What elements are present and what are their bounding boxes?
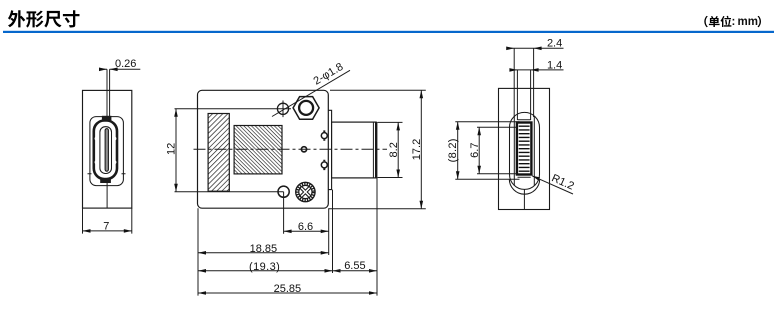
hex nut <box>293 97 319 120</box>
svg-text:(8.2): (8.2) <box>447 138 459 162</box>
shell inner wall <box>100 127 112 174</box>
svg-text:7: 7 <box>103 221 109 233</box>
rear view body <box>499 88 550 209</box>
hole centerline bottom (12 ext) <box>175 191 284 193</box>
capsule inner walls <box>514 117 534 186</box>
horizontal centerline <box>194 148 388 150</box>
leader 2-phi1.8 <box>272 70 350 116</box>
dimension 7 <box>83 208 132 234</box>
svg-text:12: 12 <box>166 143 178 155</box>
side view body <box>198 90 329 208</box>
svg-text:1.4: 1.4 <box>547 59 562 71</box>
bottom extension lines <box>198 178 377 296</box>
dimension 6.7 <box>477 127 517 174</box>
svg-text:18.85: 18.85 <box>250 243 278 255</box>
hole centerline top (12 ext) <box>175 108 292 110</box>
dimension 6.6 <box>284 230 329 232</box>
svg-text:25.85: 25.85 <box>274 283 302 295</box>
rear centerline <box>523 189 525 209</box>
svg-text:17.2: 17.2 <box>411 139 423 160</box>
svg-text:0.26: 0.26 <box>115 58 136 70</box>
svg-text:6.55: 6.55 <box>344 260 365 272</box>
bottom notch <box>100 179 111 183</box>
svg-text:6.6: 6.6 <box>298 221 313 233</box>
dimension 6.55 <box>333 269 341 273</box>
mount tab circles <box>321 133 327 139</box>
R1.2 leader <box>532 176 573 194</box>
front view outer body <box>83 90 132 208</box>
section hatch left (flange) <box>208 114 229 192</box>
contact rungs <box>519 126 530 171</box>
contact block <box>517 123 532 175</box>
top notch <box>102 116 112 121</box>
svg-text:6.7: 6.7 <box>469 143 481 158</box>
center node <box>301 147 306 152</box>
dimension 1.4 <box>512 69 564 71</box>
blue rule <box>3 31 774 33</box>
hole 1 (2-phi1.8) <box>277 103 288 114</box>
units note （单位: mm） <box>704 16 731 27</box>
dimension 12 <box>175 109 177 192</box>
dimension (19.3) <box>198 270 333 272</box>
dimension 0.26 extension lines <box>107 69 110 120</box>
dimension 0.26 <box>100 68 140 70</box>
svg-text:8.2: 8.2 <box>388 142 400 157</box>
shell side contact dots <box>95 137 117 164</box>
dimension 25.85 <box>198 292 377 294</box>
svg-text:mm: mm <box>738 16 758 28</box>
plug barrel <box>332 122 377 178</box>
centerline bottom <box>106 183 108 208</box>
receptacle shell <box>94 121 117 180</box>
dimension 8.2 <box>378 122 403 177</box>
rear capsule <box>510 112 540 189</box>
svg-text::: : <box>732 16 736 28</box>
flange step <box>328 110 331 189</box>
front view flange rounded rect <box>90 117 124 186</box>
title 外形尺寸 <box>8 10 80 27</box>
dimension (8.2) <box>455 122 519 180</box>
svg-text:(19.3): (19.3) <box>249 261 280 273</box>
dim 2.4 ext lines <box>514 48 533 120</box>
tongue slot <box>105 129 108 172</box>
hole 2 <box>278 186 289 197</box>
dimension 17.2 <box>329 90 426 208</box>
flange side ticks <box>88 173 126 175</box>
R1.2 arc <box>509 179 539 194</box>
dimension 18.85 <box>198 252 329 254</box>
section hatch right (insulator) <box>234 126 282 174</box>
dimension 2.4 <box>509 47 564 49</box>
svg-text:2.4: 2.4 <box>547 38 562 50</box>
screw head <box>296 182 315 201</box>
